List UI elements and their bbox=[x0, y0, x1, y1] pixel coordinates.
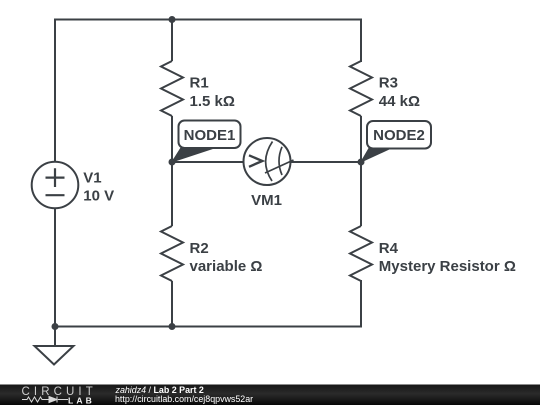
svg-text:R4: R4 bbox=[379, 240, 399, 257]
voltage source V1 bbox=[32, 162, 79, 209]
node NODE2 callout tail bbox=[361, 148, 391, 162]
svg-text:44 kΩ: 44 kΩ bbox=[379, 93, 420, 110]
svg-text:NODE1: NODE1 bbox=[184, 127, 236, 144]
svg-text:LAB: LAB bbox=[68, 395, 95, 405]
junction top middle bbox=[169, 16, 176, 23]
wire middle branch NODE1 to R2 bbox=[171, 162, 173, 226]
ground stub wire bbox=[54, 327, 56, 347]
svg-text:R2: R2 bbox=[190, 240, 209, 257]
wire middle branch top lead bbox=[171, 20, 173, 62]
svg-text:Mystery Resistor Ω: Mystery Resistor Ω bbox=[379, 258, 516, 275]
svg-text:variable Ω: variable Ω bbox=[190, 258, 263, 275]
wire NODE1 to voltmeter bbox=[172, 161, 244, 163]
wire middle branch R1 to NODE1 bbox=[171, 116, 173, 162]
svg-text:R3: R3 bbox=[379, 75, 398, 92]
wire right branch NODE2 to R4 bbox=[360, 162, 362, 226]
wire left branch upper bbox=[54, 20, 56, 162]
resistor R3 bbox=[350, 61, 372, 116]
footer bar bbox=[0, 385, 540, 405]
wire voltmeter to NODE2 bbox=[291, 161, 362, 163]
wire top rail bbox=[55, 19, 361, 21]
wire right branch top lead bbox=[360, 20, 362, 62]
svg-text:VM1: VM1 bbox=[251, 192, 282, 209]
wire middle branch R2 to bottom rail bbox=[171, 281, 173, 327]
logo circuit squiggle wire bbox=[22, 397, 68, 402]
junction bottom middle bbox=[169, 323, 176, 330]
node NODE1 callout box bbox=[179, 121, 241, 149]
junction bottom left bbox=[52, 323, 59, 330]
node NODE1 callout tail bbox=[172, 148, 215, 162]
resistor R2 bbox=[161, 226, 183, 281]
wire right branch R4 to bottom rail bbox=[360, 281, 362, 327]
svg-text:NODE2: NODE2 bbox=[373, 127, 425, 144]
resistor R1 bbox=[161, 61, 183, 116]
voltmeter VM1 bbox=[244, 138, 294, 185]
logo diode bbox=[49, 397, 57, 403]
svg-text:10 V: 10 V bbox=[83, 188, 114, 205]
wire right branch R3 to NODE2 bbox=[360, 116, 362, 162]
junction node1 bbox=[169, 159, 176, 166]
wire bottom rail bbox=[55, 326, 361, 328]
junction node2 bbox=[358, 159, 365, 166]
svg-text:1.5 kΩ: 1.5 kΩ bbox=[190, 93, 235, 110]
svg-text:V1: V1 bbox=[83, 169, 101, 186]
ground bbox=[35, 346, 74, 365]
wire left branch lower bbox=[54, 208, 56, 326]
svg-text:http://circuitlab.com/cej8qpvw: http://circuitlab.com/cej8qpvws52ar bbox=[115, 394, 253, 404]
svg-text:R1: R1 bbox=[190, 75, 209, 92]
node NODE2 callout box bbox=[367, 121, 431, 149]
resistor R4 bbox=[350, 226, 372, 281]
